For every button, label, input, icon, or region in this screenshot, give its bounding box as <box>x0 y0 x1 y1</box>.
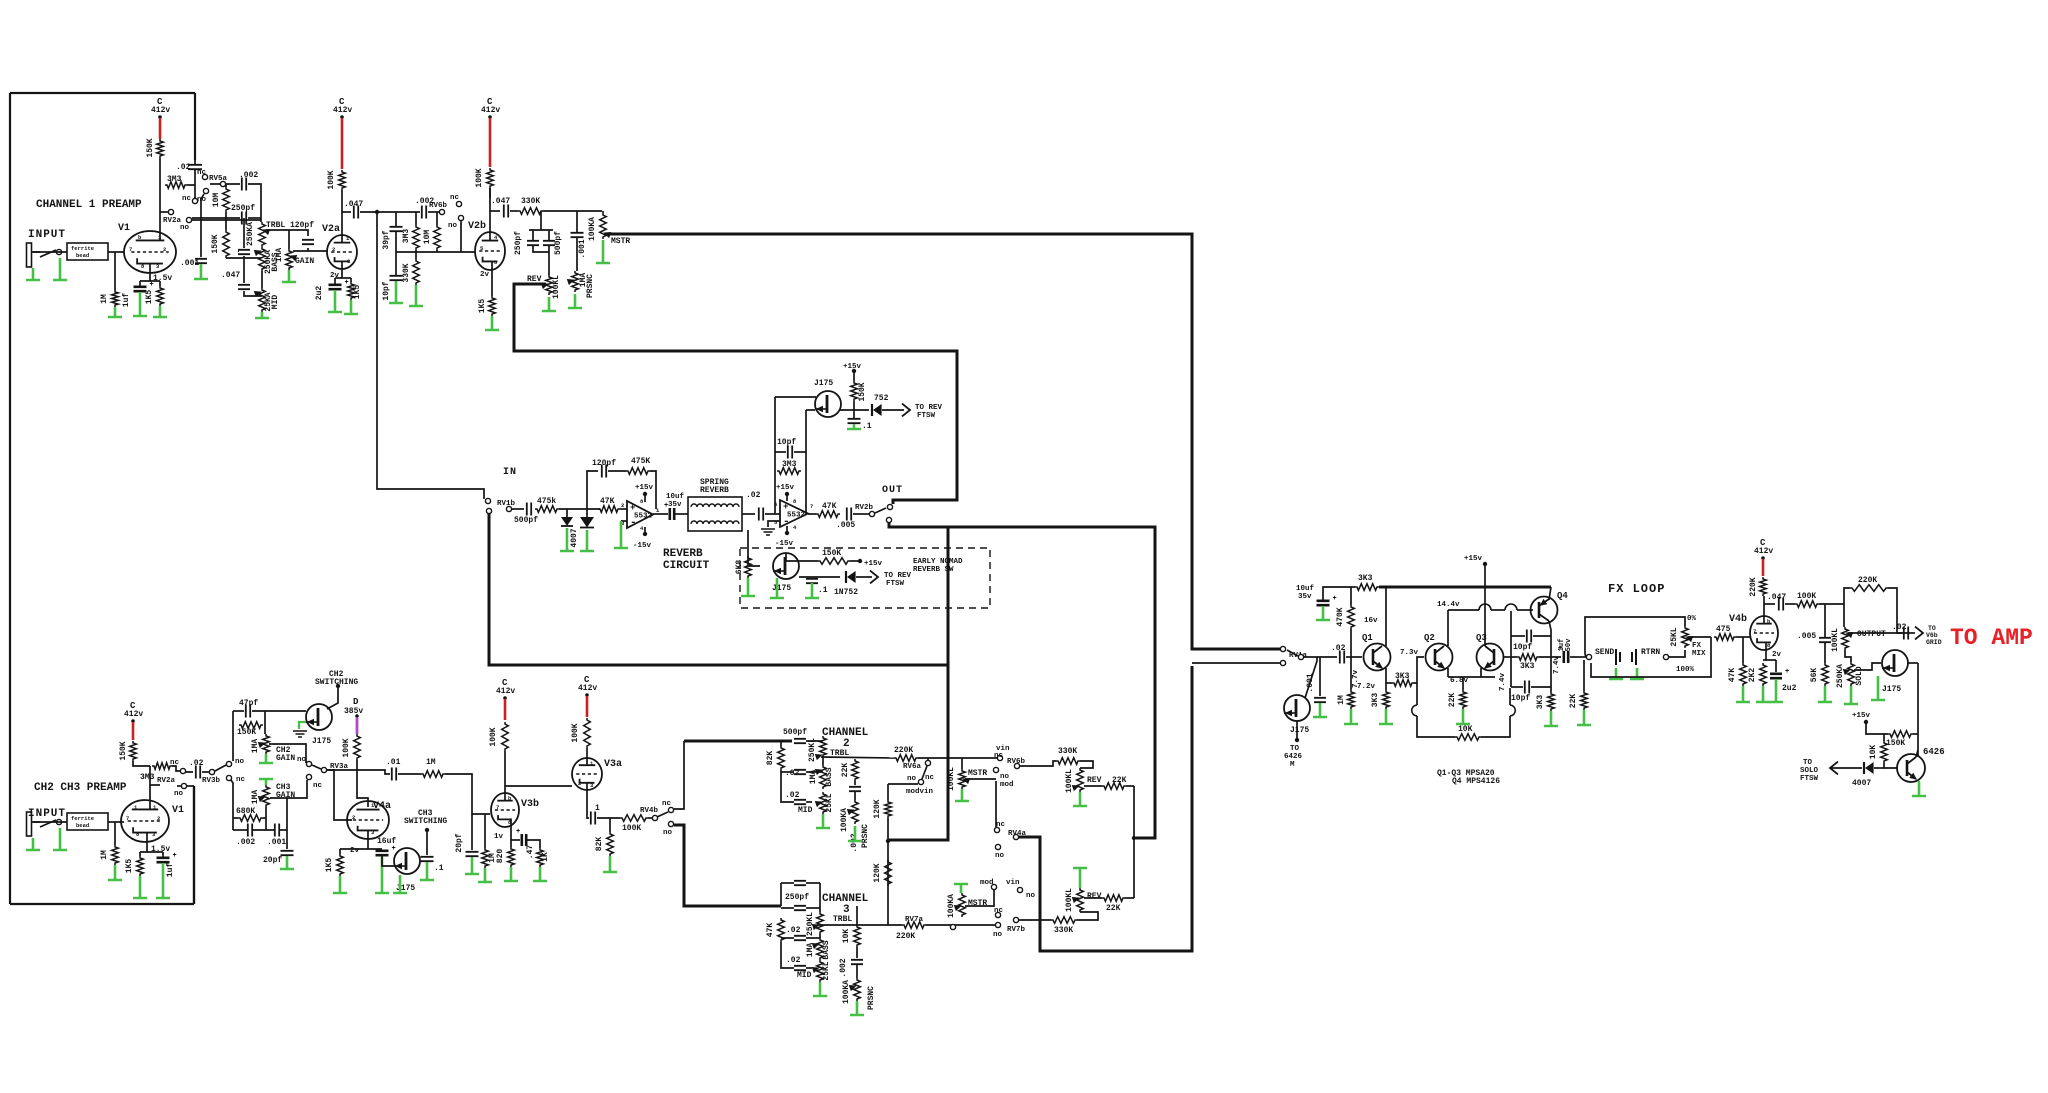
svg-text:475k: 475k <box>537 497 556 506</box>
svg-text:nc: nc <box>170 759 180 767</box>
J175 solo arrow <box>1884 666 1890 671</box>
hop fb left <box>1412 705 1417 716</box>
terminal rtrn tip <box>1663 654 1668 659</box>
svg-text:100KL: 100KL <box>1065 769 1074 793</box>
svg-text:100KL: 100KL <box>552 275 561 299</box>
svg-text:500pf: 500pf <box>514 516 538 525</box>
svg-text:2: 2 <box>163 246 166 253</box>
wire V2b plate <box>489 188 491 241</box>
svg-text:GAIN: GAIN <box>295 257 314 266</box>
capacitor .047 V2a <box>354 206 358 219</box>
wire rail to 047 <box>243 258 245 283</box>
capacitor .005 reverb <box>847 508 851 521</box>
ground opamp2 pin5 <box>761 529 775 535</box>
svg-text:V3a: V3a <box>604 759 622 770</box>
resistor 22K FX out <box>1581 691 1588 710</box>
svg-text:1uf: 1uf <box>122 293 131 308</box>
wire 1M tap <box>114 252 116 290</box>
wire 14.4v c <box>1517 609 1533 611</box>
capacitor 250pf V2b <box>527 241 539 245</box>
svg-text:nc: nc <box>236 776 246 784</box>
terminal reverb in a <box>485 498 490 503</box>
svg-text:100KA: 100KA <box>842 980 851 1004</box>
wire 680K left <box>233 817 238 819</box>
pot 100KL MSTR CH2 <box>959 769 966 789</box>
svg-text:no: no <box>1026 892 1036 900</box>
wire 470K down <box>1350 629 1352 657</box>
wire 220K ch3 to no <box>926 924 995 926</box>
wire CH1 box right edge <box>194 93 196 160</box>
wire cath split V4b <box>1763 659 1776 661</box>
svg-text:.1: .1 <box>818 586 828 595</box>
wire diode to base <box>1874 767 1884 769</box>
terminal mod ch3 <box>991 884 996 889</box>
wire V1 plate to 150K <box>159 158 161 240</box>
svg-text:no: no <box>235 758 245 766</box>
wire cap bracket top <box>529 229 553 231</box>
terminal reverb in b <box>486 508 491 513</box>
ground diode b <box>580 530 594 551</box>
wire 1K5 V4a stub <box>339 849 341 854</box>
svg-text:vin: vin <box>1006 879 1020 887</box>
svg-text:Q3: Q3 <box>1476 633 1487 643</box>
resistor 82K CH2 <box>778 746 785 770</box>
pot 250KA BASS CH1 <box>259 247 266 271</box>
svg-text:25KL: 25KL <box>1670 627 1679 646</box>
wire CH2 box bottom edge <box>10 903 194 905</box>
terminal RV2b out b <box>886 517 891 522</box>
svg-text:SOLO: SOLO <box>1855 666 1864 685</box>
terminal send <box>1586 654 1591 659</box>
ground REV pot <box>542 297 556 311</box>
resistor 220K V4b <box>1760 577 1767 596</box>
hop 14v a <box>1479 604 1491 610</box>
wire .002 to corner <box>248 184 261 222</box>
terminal vin ch3 <box>1017 887 1022 892</box>
resistor 150K gain <box>239 722 263 729</box>
wire 22K to .002 <box>854 781 856 785</box>
terminal RV3b no2 <box>306 761 311 766</box>
svg-text:100K: 100K <box>1797 592 1816 601</box>
supply C 412v V1 dot <box>158 115 162 119</box>
terminal RV5a <box>220 181 225 186</box>
wire fb bottom left <box>1417 716 1455 737</box>
svg-text:BASS: BASS <box>822 940 831 959</box>
wire mstr ch3 wiper <box>965 889 994 906</box>
svg-text:RTRN: RTRN <box>1641 648 1660 657</box>
tube V2a <box>327 235 357 269</box>
terminal RV3b pole <box>209 769 214 774</box>
svg-text:7.4v: 7.4v <box>1499 673 1507 692</box>
svg-text:nc: nc <box>994 752 1004 760</box>
ferrite bead 2 <box>67 813 108 830</box>
wire .02 CH2 a <box>186 771 193 772</box>
resistor 1M FX <box>1348 690 1355 709</box>
wire cap bracket br <box>548 245 550 275</box>
wire RV2a2 stub <box>177 785 181 787</box>
svg-text:.001: .001 <box>180 259 199 268</box>
svg-text:TO REV: TO REV <box>884 572 912 580</box>
capacitor 250pf CH3 top <box>794 881 806 885</box>
wire -15v stub1 <box>644 527 646 533</box>
svg-text:25KL: 25KL <box>825 793 834 812</box>
svg-text:1MA: 1MA <box>275 248 284 263</box>
wire +15v stub2 <box>786 495 788 501</box>
wire 22K ch3 to mix <box>1125 897 1134 899</box>
svg-text:7: 7 <box>810 503 813 510</box>
svg-text:.02: .02 <box>785 769 800 778</box>
ground GAIN pot <box>282 270 296 282</box>
terminal RV3b no <box>226 761 231 766</box>
wire 10M col <box>436 212 438 225</box>
wire col 287 <box>286 798 288 849</box>
terminal nc CH1 .02 <box>192 198 197 203</box>
transistor 6426 emitter arrow <box>1910 774 1916 779</box>
svg-text:ferrite: ferrite <box>71 815 95 822</box>
pot 1MA GAIN CH1 <box>286 249 293 270</box>
resistor 1M input <box>112 290 119 307</box>
capacitor .002 gain <box>248 824 252 837</box>
ground PRSNC CH3 <box>850 1001 864 1015</box>
wire bottom rail b <box>253 829 274 831</box>
wire J175 right <box>840 409 869 411</box>
supply C 412v V2a dot <box>340 115 344 119</box>
svg-text:20pf: 20pf <box>455 833 464 852</box>
svg-text:+15v: +15v <box>776 484 795 492</box>
svg-text:.01: .01 <box>386 758 401 767</box>
dot CH2 switching <box>336 684 340 688</box>
wire fb 10pf left <box>775 451 786 453</box>
wire RV1a to .02 <box>1304 656 1337 658</box>
ground 1K5 CH1 <box>153 306 167 317</box>
diode 752 <box>871 404 873 416</box>
svg-text:J175: J175 <box>1290 726 1309 735</box>
wire 47K to opamp <box>620 508 627 510</box>
op-amp U1 5532 reverb drive <box>627 501 653 528</box>
wire 150K CH2 down <box>133 761 150 766</box>
wire 1M shunt stub <box>484 814 486 848</box>
supply D 385v purple <box>356 718 359 734</box>
wire ch3 wiper <box>270 780 307 798</box>
ground 6K8 <box>741 578 755 596</box>
svg-text:MID: MID <box>271 295 280 310</box>
supply C 412v V3a supply line <box>586 696 589 717</box>
wire junction right <box>377 211 420 213</box>
svg-text:+: + <box>173 852 177 860</box>
svg-text:GRID: GRID <box>1926 639 1942 646</box>
resistor 56K <box>1822 663 1829 686</box>
wire V4a cath split <box>340 848 382 850</box>
wire .02 bass wires <box>781 771 794 773</box>
wire prsnc col b <box>576 238 578 271</box>
svg-text:1MA: 1MA <box>251 790 260 805</box>
svg-text:412v: 412v <box>578 684 597 693</box>
svg-text:220K: 220K <box>894 746 913 755</box>
wire .002 to prsnc ch3 <box>856 965 858 978</box>
ground jack2 sleeve <box>26 838 40 850</box>
wire 3M3 to 330K <box>415 250 417 259</box>
J175 solo <box>1882 650 1908 676</box>
pot 1MA CH3 GAIN <box>263 785 270 807</box>
wire .02 ch3 a wires <box>781 937 794 939</box>
capacitor 250pf CH3 b <box>794 906 806 910</box>
wire bottom rail ch2ch3 <box>233 829 247 831</box>
ground REV CH3 inv <box>1073 868 1087 888</box>
svg-text:250KL: 250KL <box>806 912 815 936</box>
wire arrow to diode <box>1830 767 1862 769</box>
wire jack tip to switch <box>32 251 40 253</box>
pot 25KL MID CH3 <box>817 960 824 982</box>
svg-text:2K2: 2K2 <box>1748 668 1757 683</box>
terminal no RV5a <box>203 188 208 193</box>
J175 FX mute arrow <box>1286 711 1292 716</box>
svg-text:RV1b: RV1b <box>497 500 516 508</box>
pot 25KL MID CH2 <box>820 792 827 814</box>
svg-text:mod: mod <box>980 879 994 887</box>
wire 1K5 stub CH1 <box>159 281 161 286</box>
svg-text:412v: 412v <box>1754 547 1773 556</box>
wire 10M to wire <box>225 212 227 218</box>
svg-text:500pf: 500pf <box>783 728 807 737</box>
wire bead2 to grid <box>108 821 124 823</box>
svg-text:5532: 5532 <box>634 513 653 521</box>
wire diode2 stub <box>586 509 588 517</box>
svg-text:1uf: 1uf <box>166 863 175 878</box>
resistor 330K V2b <box>413 259 420 285</box>
wire .005 to RV2b <box>853 513 869 515</box>
wire nc to col <box>231 780 233 830</box>
svg-text:22K: 22K <box>1106 904 1121 913</box>
svg-text:6K8: 6K8 <box>735 560 744 575</box>
terminal nc RV5a <box>202 174 207 179</box>
ground 3K3 Q4 <box>1544 711 1558 726</box>
ground 1K <box>533 867 547 881</box>
svg-text:1N752: 1N752 <box>834 588 858 597</box>
svg-text:RV6a: RV6a <box>903 763 922 771</box>
supply C 412v V3b dot <box>503 696 507 700</box>
capacitor 20pf V3b <box>466 852 479 856</box>
svg-text:330K: 330K <box>1054 926 1073 935</box>
svg-text:220K: 220K <box>1749 577 1758 596</box>
wire 10pf top b <box>1533 635 1551 637</box>
wire Q4 collector down <box>1549 621 1551 692</box>
wire 39pf col <box>395 212 397 226</box>
resistor 3K3 out <box>1517 654 1539 661</box>
wire spring out <box>742 513 755 515</box>
svg-text:REV: REV <box>1087 776 1102 785</box>
pot 25KL FX MIX <box>1682 626 1689 648</box>
wire +15v down <box>1484 566 1486 644</box>
terminal RV4b pole <box>652 815 657 820</box>
svg-text:47K: 47K <box>766 923 775 938</box>
ground 1K5 V4a <box>333 876 347 893</box>
wire V4b out tee <box>1764 603 1775 605</box>
svg-text:6426: 6426 <box>1284 753 1303 761</box>
svg-text:+: + <box>392 845 396 853</box>
svg-text:3K3: 3K3 <box>1358 574 1373 583</box>
terminal RV4b no <box>668 821 673 826</box>
svg-text:FX LOOP: FX LOOP <box>1608 582 1665 596</box>
svg-text:V2b: V2b <box>468 220 486 232</box>
wire V4b cathode <box>1765 643 1767 660</box>
tube V3b <box>491 793 519 827</box>
svg-text:Q4 MPS4126: Q4 MPS4126 <box>1452 777 1500 786</box>
J175 CH3 switching arrow <box>396 864 402 869</box>
wire trbl to bass <box>822 757 824 765</box>
pot 1MA PRSNC CH1 <box>572 271 579 292</box>
wire mix bus <box>1133 786 1135 898</box>
svg-text:6.8v: 6.8v <box>1450 677 1469 685</box>
svg-text:V1: V1 <box>172 805 184 816</box>
svg-text:330K: 330K <box>402 263 411 282</box>
resistor 22K Q2 <box>1460 690 1467 709</box>
ground switch 2 <box>53 828 67 850</box>
resistor 330K CH3 <box>1051 917 1077 924</box>
wire 1K5 stub V2a <box>350 278 352 282</box>
svg-text:no: no <box>297 756 307 764</box>
wire 22K fx stub <box>1583 660 1585 691</box>
pot 100KL OUTPUT <box>1842 627 1849 650</box>
resistor 100K V2a <box>339 170 346 190</box>
svg-text:TO AMP: TO AMP <box>1950 625 2033 651</box>
transistor Q2 MPSA20 <box>1426 644 1453 671</box>
wire 1uf to send <box>1570 656 1586 658</box>
svg-text:SOLO: SOLO <box>1800 767 1819 775</box>
pot 250KL TRBL CH3 wiper <box>813 925 819 930</box>
ground MSTR CH2 <box>955 789 969 801</box>
ground 1M <box>108 307 122 317</box>
wire GAIN wiper to V2a grid <box>293 250 327 252</box>
wire trbl wiper out <box>821 757 894 758</box>
wire prsnc col <box>576 211 578 232</box>
svg-text:0%: 0% <box>1687 615 1697 623</box>
wire .02 ch3 a b <box>806 937 820 939</box>
J175 CH2 switching arrow <box>308 720 314 725</box>
resistor 100K V3b <box>502 722 509 751</box>
terminal RV3b nc <box>226 775 231 780</box>
wire RV3a blade1 <box>312 765 321 769</box>
wire ch3 out <box>817 924 857 926</box>
wire Q1 collector <box>1385 587 1387 646</box>
wire 150K stack top <box>225 218 227 230</box>
svg-text:MID: MID <box>798 806 813 815</box>
wire RV3a to V4a grid <box>327 770 352 820</box>
wire bypass vertical mid <box>889 527 948 840</box>
svg-text:OUTPUT: OUTPUT <box>1857 630 1886 639</box>
resistor 2K2 <box>1760 663 1767 686</box>
svg-text:PRSNC: PRSNC <box>586 274 595 298</box>
wire ch2 wiper <box>269 744 306 763</box>
pot 100KA PRSNC CH3 <box>854 978 861 1001</box>
capacitor 47pf <box>246 705 250 718</box>
pot 100KL REV CH1 <box>546 275 553 295</box>
pot 100KL MSTR CH2 wiper <box>964 779 970 784</box>
wire 150K to 15v <box>850 560 858 562</box>
svg-text:1MA: 1MA <box>251 739 260 754</box>
wire 500pf to pot <box>806 740 823 742</box>
ground SEND <box>1609 668 1623 679</box>
wire ch3 in c <box>806 907 820 909</box>
wire Q2 emitter <box>1447 668 1449 677</box>
capacitor .02 CH2 bass <box>794 770 806 774</box>
svg-text:3M3: 3M3 <box>402 229 411 244</box>
svg-text:120pf: 120pf <box>592 459 616 468</box>
svg-text:2v: 2v <box>1772 651 1782 659</box>
svg-text:3M3: 3M3 <box>167 175 182 184</box>
svg-text:modvin: modvin <box>906 788 934 796</box>
capacitor .002 CH1 <box>242 178 246 191</box>
resistor 47K reverb in <box>598 506 620 513</box>
svg-text:7.4v: 7.4v <box>1553 656 1561 675</box>
wire .02 node <box>194 160 196 164</box>
wire .002 to RV6b <box>428 211 439 213</box>
svg-text:3K3: 3K3 <box>1395 672 1410 681</box>
wire .002 to prsnc <box>854 792 856 800</box>
pot 250KL TRBL CH3 <box>817 912 824 934</box>
wire J175 solo right <box>1907 662 1918 664</box>
transistor Q4 MPS4126 <box>1531 597 1558 624</box>
svg-text:25KL: 25KL <box>822 961 831 980</box>
resistor 3K3 series <box>1392 680 1414 687</box>
wire RV4b nc up <box>674 741 684 809</box>
svg-text:no: no <box>448 222 458 230</box>
wire 330K to MSTR <box>543 210 602 212</box>
resistor 1K5 V2b <box>489 296 496 316</box>
svg-text:RV3b: RV3b <box>202 777 221 785</box>
svg-text:.47: .47 <box>526 845 535 860</box>
resistor 3M3 CH1 <box>165 182 187 189</box>
pot 250KA TRBL CH1 <box>259 222 266 247</box>
capacitor .002 CH2 <box>849 787 861 791</box>
wire 02 ch3mid a <box>781 962 794 968</box>
capacitor .02 CH1 <box>188 165 202 169</box>
svg-text:TO: TO <box>1803 759 1813 767</box>
wire 120pf a <box>289 230 308 236</box>
svg-text:.002: .002 <box>236 838 255 847</box>
capacitor .01 <box>392 768 396 781</box>
svg-text:1MA: 1MA <box>809 770 818 785</box>
ground J175 CH2 green wire <box>299 722 306 729</box>
wire 100K to junction <box>1819 603 1844 605</box>
svg-text:1K5: 1K5 <box>125 859 134 874</box>
capacitor .001 CH1 <box>195 259 207 263</box>
capacitor 500pf CH2 <box>794 739 806 743</box>
wire MSTR CH2 stub <box>961 758 963 769</box>
ground .1 ch3sw <box>420 862 434 880</box>
wire 6K8 top <box>747 530 749 556</box>
wire 120pf b <box>307 248 309 251</box>
input switch contact 2 <box>40 820 56 827</box>
ground 1uf CH1 <box>133 292 147 316</box>
svg-text:INPUT: INPUT <box>28 229 66 241</box>
svg-text:TO: TO <box>1928 625 1936 632</box>
svg-text:bead: bead <box>76 822 89 829</box>
svg-text:47K: 47K <box>600 497 615 506</box>
svg-text:nc: nc <box>450 194 460 202</box>
svg-text:1MA: 1MA <box>806 943 815 958</box>
wire 475k to diodes <box>559 508 600 510</box>
wire RV2a2 row <box>150 784 160 786</box>
wire ch3 stack top <box>781 882 794 884</box>
arrow to rev ftsw <box>902 404 910 417</box>
wire .001 col <box>1319 657 1321 696</box>
pot 25KL MID CH3 wiper <box>813 968 819 973</box>
terminal RV2a b <box>186 217 191 222</box>
capacitor 250pf CH1 <box>242 212 246 225</box>
svg-text:22K: 22K <box>1448 693 1457 708</box>
wire 10K to base <box>1884 763 1898 768</box>
wire V2a cathode <box>341 261 343 278</box>
